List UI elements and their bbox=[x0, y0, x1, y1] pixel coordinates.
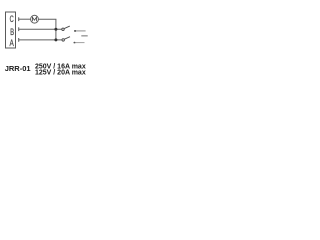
svg-text:125V / 20A max: 125V / 20A max bbox=[35, 69, 86, 76]
svg-text:B: B bbox=[10, 27, 14, 37]
svg-text:C: C bbox=[10, 14, 15, 24]
svg-text:A: A bbox=[10, 38, 14, 48]
svg-text:JRR-01: JRR-01 bbox=[5, 64, 31, 73]
